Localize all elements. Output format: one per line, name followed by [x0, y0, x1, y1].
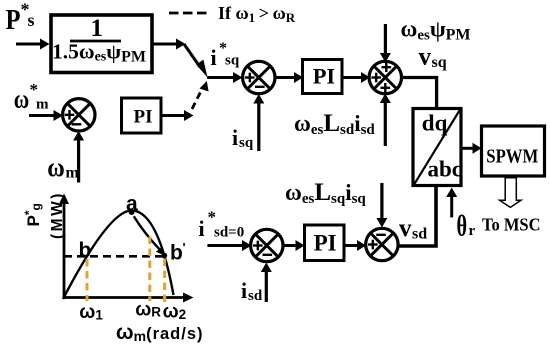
svg-text:': ': [183, 240, 186, 255]
svg-text:sd: sd: [412, 226, 427, 243]
svg-text:If ω1 > ωR: If ω1 > ωR: [218, 3, 296, 25]
svg-text:i: i: [211, 45, 217, 70]
svg-text:m: m: [36, 97, 49, 113]
svg-text:r: r: [469, 223, 476, 239]
svg-text:θ: θ: [457, 211, 468, 242]
svg-text:(MW): (MW): [49, 191, 66, 239]
svg-text:ω: ω: [14, 85, 29, 114]
svg-text:PI: PI: [314, 230, 337, 255]
svg-text:i: i: [199, 216, 205, 241]
svg-text:P: P: [6, 5, 21, 36]
svg-text:b: b: [170, 242, 183, 265]
svg-text:sd: sd: [248, 288, 263, 304]
svg-text:ωm(rad/s): ωm(rad/s): [116, 321, 204, 344]
svg-text:a: a: [126, 193, 138, 216]
svg-text:PI: PI: [134, 107, 153, 128]
svg-text:v: v: [419, 44, 432, 71]
svg-text:i: i: [241, 278, 247, 303]
svg-text:1: 1: [91, 15, 104, 42]
svg-text:i: i: [232, 125, 238, 150]
svg-text:sd=0: sd=0: [214, 225, 244, 241]
svg-text:s: s: [28, 10, 35, 30]
svg-text:ω: ω: [47, 152, 65, 182]
svg-text:To MSC: To MSC: [482, 215, 541, 235]
svg-text:b: b: [79, 239, 92, 262]
svg-text:sq: sq: [225, 53, 240, 69]
svg-text:SPWM: SPWM: [486, 146, 538, 168]
svg-text:dq: dq: [422, 111, 448, 136]
svg-text:abc: abc: [428, 157, 463, 182]
svg-text:v: v: [399, 215, 412, 242]
svg-text:sq: sq: [239, 135, 254, 151]
svg-text:sq: sq: [432, 54, 447, 71]
svg-text:PI: PI: [313, 63, 336, 88]
